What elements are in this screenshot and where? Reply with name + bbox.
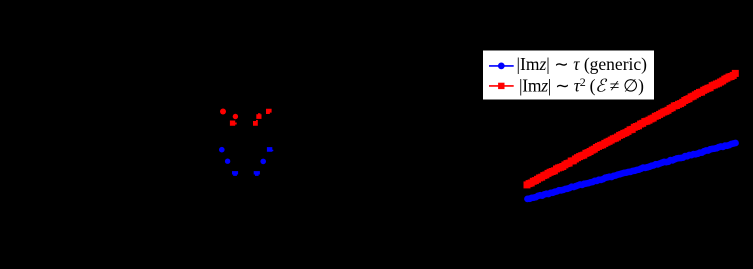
svg-text:|Imz| ∼ τ (generic): |Imz| ∼ τ (generic) — [517, 54, 648, 74]
red dot R4 — [256, 113, 261, 119]
blue dot B6 — [267, 147, 273, 152]
left panel red eigenvalue dots (tau^2 case) — [220, 109, 272, 126]
blue dot B5 — [260, 159, 266, 165]
red dot R2 — [233, 114, 238, 119]
red dot R5 — [266, 109, 272, 114]
red dot R3 — [230, 121, 237, 126]
right panel blue scaling line |Imz| ~ tau — [524, 140, 739, 203]
red dot R6 — [253, 120, 258, 126]
legend blue sample line — [489, 65, 514, 67]
legend red sample line — [489, 85, 514, 87]
legend red square marker — [498, 83, 504, 89]
blue dot B1 — [219, 147, 225, 153]
blue dot B2 — [225, 159, 230, 164]
right panel red scaling line |Imz| ~ tau^2 — [524, 70, 739, 188]
red dot R1 — [220, 109, 226, 115]
blue dot B3 — [232, 171, 238, 176]
legend blue circle marker — [498, 63, 505, 70]
legend box — [483, 50, 655, 100]
blue dot B4 — [254, 171, 260, 176]
left panel blue eigenvalue dots (generic case) — [219, 147, 273, 176]
